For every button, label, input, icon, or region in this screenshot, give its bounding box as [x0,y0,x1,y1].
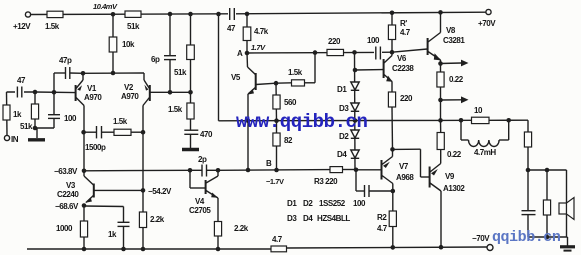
wire top rail right [235,12,487,14]
svg-text:−70V: −70V [472,234,490,243]
capacitor 47p (V1 base-emitter) [54,56,83,92]
svg-text:82: 82 [284,136,293,145]
terminal -70V [472,234,493,251]
svg-text:R2: R2 [377,213,387,222]
resistor 1.5k (V5 base) [274,53,315,86]
svg-text:4.7: 4.7 [400,28,411,37]
svg-text:A1302: A1302 [443,184,465,193]
svg-text:10: 10 [474,106,483,115]
svg-text:D4: D4 [337,150,347,159]
svg-text:D2: D2 [303,199,313,208]
svg-text:V7: V7 [399,162,409,171]
svg-text:4.7: 4.7 [377,224,388,233]
svg-text:4.7k: 4.7k [254,27,269,36]
node V7 emitter junction [390,147,395,152]
ground (input) [28,128,45,140]
svg-text:10k: 10k [122,40,135,49]
svg-text:−68.6V: −68.6V [55,202,79,211]
svg-text:V8: V8 [446,26,456,35]
resistor R3 220 [314,167,356,186]
svg-text:1.5k: 1.5k [113,117,128,126]
resistor (zobel series) [524,120,531,172]
svg-text:1.5k: 1.5k [168,105,183,114]
resistor 0.22 (V8 emitter) [437,72,464,120]
svg-text:C3281: C3281 [443,36,465,45]
svg-text:C2705: C2705 [189,206,211,215]
capacitor 470 [184,130,213,148]
capacitor 100 (input shunt) [35,92,77,128]
node V7 base junction [354,168,382,173]
svg-text:470: 470 [200,130,213,139]
svg-text:IN: IN [11,135,19,144]
capacitor 1k (emitter bypass) [84,206,130,249]
svg-text:C2238: C2238 [392,64,414,73]
resistor 0.22 (V9 emitter) [437,120,462,159]
wire node B [218,169,330,172]
resistor 10k [109,14,135,73]
node -54.2V junction [141,187,172,196]
node output junction [438,118,471,123]
resistor 51k (input shunt) [20,92,39,131]
node rail junctions [168,10,443,16]
wire V5 emitter to node B [246,121,251,173]
diode list text [287,199,350,223]
resistor 2.2k (V4 emitter) [214,198,248,249]
transistor V3 C2240 [57,171,143,203]
svg-text:2p: 2p [198,155,207,164]
diode D1 [337,82,359,94]
svg-text:100: 100 [367,36,380,45]
resistor 560 [273,83,297,121]
svg-text:4.7: 4.7 [272,235,283,244]
resistor 2.2k (V3 collector load) [139,190,164,249]
resistor (speaker shunt) [543,170,550,237]
wire bottom rail right [287,245,487,250]
svg-text:D1: D1 [287,199,297,208]
svg-text:D2: D2 [339,132,349,141]
diode D3 [339,103,359,113]
resistor 51k (top) [125,11,141,31]
diode D2 [339,130,359,141]
resistor 82 [273,121,293,170]
svg-text:2.2k: 2.2k [234,224,249,233]
resistor 1.5k (top left) [45,11,63,31]
resistor 1.5k (lead-lag) [113,117,145,135]
svg-text:1500p: 1500p [85,143,106,152]
svg-text:V1: V1 [87,84,97,93]
transistor V8 C3281 [392,12,465,72]
ground (470) [182,148,199,151]
svg-text:6p: 6p [151,55,160,64]
inductor 4.7mH [461,118,511,157]
transistor V5 [231,53,276,121]
transistor V9 A1302 [430,150,466,248]
svg-text:2.2k: 2.2k [150,215,165,224]
svg-text:220: 220 [400,94,413,103]
svg-text:B: B [266,159,272,168]
svg-text:D1: D1 [337,85,347,94]
wire node A rail [247,50,392,55]
resistor 1000 [56,206,88,250]
terminal +70V [478,9,496,28]
svg-text:51k: 51k [20,122,33,131]
svg-text:HZS4BLL: HZS4BLL [317,214,350,223]
wire speaker bottom [528,235,568,240]
svg-text:1k: 1k [108,230,117,239]
svg-text:A: A [237,49,243,58]
svg-text:A970: A970 [84,93,102,102]
svg-text:qqibb.cn: qqibb.cn [492,229,561,246]
svg-text:www.qqibb.cn: www.qqibb.cn [236,111,367,133]
node lower arrow tap [438,96,468,103]
svg-text:1SS252: 1SS252 [319,199,346,208]
svg-text:1k: 1k [13,110,22,119]
wire emitter rail (V1 V2 tail) [81,71,144,76]
svg-text:A968: A968 [396,173,414,182]
capacitor 100 (A to VAS) [367,36,382,60]
capacitor 6p [151,14,176,92]
resistor R2 4.7 [377,211,396,233]
ground (speaker) [560,237,575,251]
node A [237,43,266,58]
svg-text:+12V: +12V [13,22,31,31]
node 10.4mV junction [93,2,118,17]
capacitor 47 (rail series) [227,8,236,33]
terminal +12V [13,12,31,31]
node -63.8V [54,167,86,176]
resistor 4.7 (bottom rail series) [271,235,287,252]
svg-text:1.7V: 1.7V [251,43,266,52]
svg-text:−1.7V: −1.7V [266,177,284,186]
svg-text:560: 560 [284,98,297,107]
svg-text:V6: V6 [397,54,407,63]
node input junctions [33,90,57,95]
svg-text:1000: 1000 [56,224,73,233]
transistor V7 A968 [382,149,415,247]
svg-text:V9: V9 [445,172,455,181]
svg-text:C2240: C2240 [57,190,79,199]
node -68.6V [55,202,86,211]
svg-text:D4: D4 [303,214,313,223]
wire top rail left [31,13,230,16]
svg-text:100: 100 [353,199,366,208]
wire bottom rail left [27,247,271,252]
resistor 51k (feedback upper) [174,14,194,92]
svg-text:0.22: 0.22 [449,75,464,84]
wire base V1 [35,91,75,94]
node B [266,159,284,186]
svg-text:1.5k: 1.5k [45,22,60,31]
resistor R' 4.7 [388,13,410,52]
svg-text:220: 220 [328,37,341,46]
resistor 1k (input series) [3,92,22,135]
svg-text:51k: 51k [127,22,140,31]
node V6 collector junction [390,50,395,55]
transistor V2 A970 [121,73,150,190]
resistor 220 (V6 emitter) [388,92,413,149]
svg-text:47: 47 [17,76,26,85]
svg-text:100: 100 [64,114,77,123]
wire mid horizontal (bias line) [219,14,441,123]
capacitor (zobel) [522,170,536,237]
svg-text:10.4mV: 10.4mV [93,2,118,11]
speaker [559,170,574,237]
capacitor 100 (V7 b-c) [353,170,395,208]
svg-text:R': R' [400,19,407,28]
svg-text:1.5k: 1.5k [288,68,303,77]
svg-text:0.22: 0.22 [447,150,462,159]
svg-text:V2: V2 [124,83,134,92]
transistor V4 C2705 [189,168,220,215]
svg-text:51k: 51k [174,68,187,77]
wire V1 collector to V4 base node [84,169,190,172]
svg-text:+70V: +70V [478,19,496,28]
diode D4 [337,150,359,159]
capacitor 1500p (lead-lag) [81,126,114,152]
resistor 220 (A to VAS) [327,37,344,56]
svg-text:D3: D3 [287,214,297,223]
wire speaker top [528,168,567,173]
svg-text:V4: V4 [195,197,205,206]
svg-text:R3 220: R3 220 [314,177,338,186]
capacitor 2p [188,155,218,177]
capacitor 47 (input coupling) [7,76,36,98]
resistor 10 (output) [472,106,529,124]
svg-text:V3: V3 [66,181,76,190]
transistor V6 C2238 [355,52,414,92]
svg-text:4.7mH: 4.7mH [474,148,496,157]
svg-text:−63.8V: −63.8V [54,167,78,176]
svg-text:A970: A970 [121,92,139,101]
resistor 1.5k (feedback lower) [168,92,194,130]
svg-text:47p: 47p [59,56,72,65]
wire base V2 [150,90,193,95]
svg-text:−54.2V: −54.2V [148,187,172,196]
terminal IN [4,135,18,144]
svg-text:47: 47 [227,24,236,33]
svg-text:V5: V5 [231,73,241,82]
diode string feed wire [353,52,358,170]
node V8 emitter arrow tap [438,60,468,67]
transistor V1 A970 [76,73,103,171]
resistor 4.7k (rail to node A) [243,14,269,53]
wire V7 emitter to V9 base [393,148,421,150]
